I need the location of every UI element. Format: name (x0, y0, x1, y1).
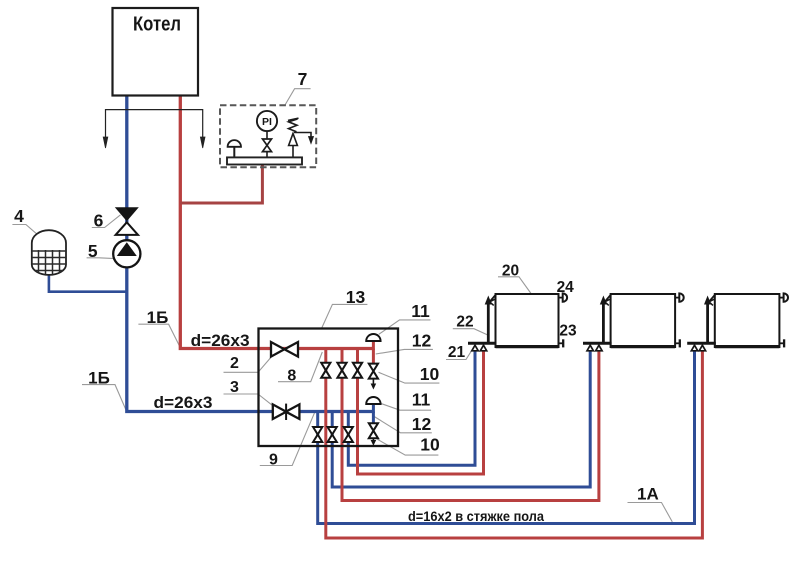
svg-text:12: 12 (412, 330, 432, 350)
valve 3 (blue return, balancing) (273, 404, 300, 420)
wire blue drain stub (372, 412, 375, 425)
radiator #1 return fitting 23 (559, 339, 564, 347)
leader label 3 (224, 394, 273, 405)
svg-text:4: 4 (14, 206, 24, 226)
check valve 6 (115, 207, 139, 235)
PIPES (49, 95, 703, 538)
svg-text:7: 7 (298, 69, 308, 89)
leader label 1B-top (138, 324, 179, 346)
wire floor-loop red to radiator 2 (342, 349, 599, 501)
radiator #1 thermostatic valve 24 (559, 293, 568, 301)
manifold valve 8-1 (321, 363, 330, 378)
radiator #3 connection bar (687, 343, 716, 351)
air vent 11 (red manifold) (366, 334, 380, 341)
svg-text:21: 21 (448, 344, 466, 361)
mixing unit box 13 (259, 329, 399, 447)
radiator #3 return fitting (779, 339, 784, 347)
drain valve 10/12 (blue manifold) (369, 423, 378, 446)
leader label 13 (321, 304, 367, 329)
radiator #2 return fitting (675, 339, 680, 347)
svg-text:9: 9 (269, 451, 278, 468)
LEADERS (12, 89, 672, 522)
manifold valve 9-3 (344, 427, 353, 442)
manifold valve 9-2 (328, 427, 337, 442)
svg-text:20: 20 (502, 263, 519, 280)
svg-text:d=26x3: d=26x3 (191, 331, 250, 350)
radiator #3 riser with arrow (704, 294, 715, 343)
radiator #2 riser with arrow (600, 294, 611, 343)
wire expansion tank connection (49, 274, 127, 292)
svg-text:PI: PI (262, 116, 272, 128)
leader label 8 (278, 352, 322, 382)
wire blue manifold riser to air vent (372, 404, 375, 413)
wire red drain stub (372, 349, 375, 365)
svg-text:11: 11 (412, 390, 431, 410)
radiator #1 connection bar 21 (468, 343, 497, 351)
leader label 2 (224, 358, 271, 373)
pump 5 (113, 240, 140, 267)
leader label 22 (453, 329, 487, 335)
svg-text:2: 2 (230, 355, 239, 372)
security group 7 dashed enclosure (220, 105, 316, 167)
leader label 21 (446, 351, 472, 360)
valve 2 (red supply) (271, 342, 298, 357)
svg-text:5: 5 (88, 241, 98, 261)
svg-text:13: 13 (346, 287, 366, 307)
wire floor-loop blue to radiator 2 (332, 351, 590, 487)
svg-text:23: 23 (559, 323, 577, 340)
arrow bracket under boiler (103, 110, 205, 148)
drain valve 10/12 (red manifold) (369, 364, 378, 390)
boiler box (113, 8, 199, 96)
leader label 5 (87, 257, 115, 260)
radiator 20 #1 (496, 294, 559, 347)
manifold valve 9-1 (313, 427, 322, 442)
svg-text:d=16x2 в стяжке пола: d=16x2 в стяжке пола (408, 508, 544, 524)
leader label 7 (285, 89, 310, 105)
svg-text:6: 6 (94, 211, 104, 231)
manifold valve 8-3 (353, 363, 362, 378)
svg-text:d=26x3: d=26x3 (154, 393, 213, 412)
wire floor-loop blue to radiator 3 (318, 351, 695, 524)
svg-text:10: 10 (420, 435, 440, 455)
wire red branch to security group (180, 164, 262, 203)
wire floor-loop blue to radiator 1 (348, 351, 475, 465)
wire floor-loop red to radiator 3 (326, 349, 703, 539)
svg-text:1Б: 1Б (88, 369, 110, 388)
air vent (security group) (228, 140, 241, 157)
svg-text:3: 3 (230, 379, 239, 396)
leader label 11 top (379, 320, 431, 334)
svg-text:Котел: Котел (133, 14, 181, 36)
expansion tank 4 (31, 230, 67, 276)
svg-text:8: 8 (287, 368, 296, 385)
manifold valve 8-2 (337, 363, 346, 378)
leader label 10 bottom (377, 439, 438, 455)
wire floor-loop red to radiator 1 (358, 349, 484, 475)
leader label 9 (260, 413, 315, 466)
svg-text:10: 10 (420, 364, 440, 384)
wire blue return main: boiler to pump to mixing unit (127, 95, 374, 412)
wire red supply main: boiler to mixing unit (180, 95, 373, 349)
RADIATORS (468, 293, 788, 350)
radiator 20 #3 (715, 294, 780, 347)
leader label 1A (628, 503, 673, 522)
svg-text:22: 22 (456, 314, 473, 331)
leader label 10 top (379, 372, 440, 383)
svg-text:1Б: 1Б (147, 308, 169, 327)
safety valve with spring (288, 118, 314, 157)
manometer PI (257, 111, 277, 139)
manometer valve (263, 139, 272, 158)
leader label 4 (12, 225, 36, 234)
svg-text:24: 24 (557, 279, 575, 296)
security group manifold bar (227, 157, 302, 164)
svg-text:11: 11 (411, 301, 430, 321)
air vent 11 (blue manifold) (366, 397, 380, 404)
leader label 12 bottom (374, 417, 432, 433)
radiator #2 connection bar (583, 343, 612, 351)
radiator #2 thermostatic valve (675, 293, 684, 301)
leader label 12 top (376, 349, 433, 354)
leader label 6 (92, 215, 121, 228)
radiator 20 #2 (611, 294, 676, 347)
leader label 11 bottom (379, 403, 431, 411)
leader label 20 (498, 277, 531, 294)
svg-text:1А: 1А (637, 485, 659, 504)
svg-text:12: 12 (412, 414, 432, 434)
wire red manifold riser to air vent (372, 341, 375, 350)
radiator #1 riser 22 with arrow (485, 294, 496, 343)
radiator #3 thermostatic valve (779, 293, 788, 301)
leader label 1B-left (82, 385, 126, 410)
